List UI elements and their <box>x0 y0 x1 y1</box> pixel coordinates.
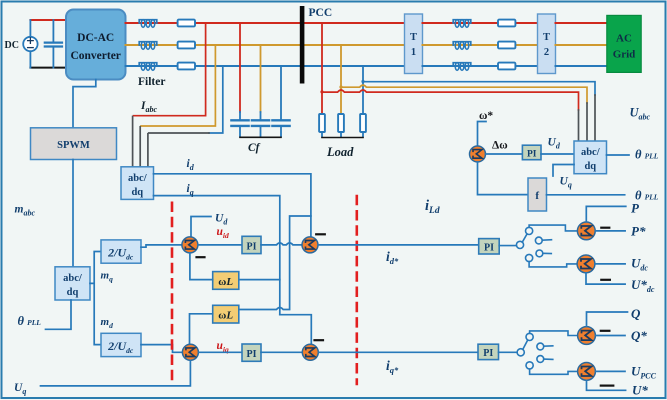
wire Load tap phase A <box>321 23 323 114</box>
svg-text:abc/: abc/ <box>128 173 148 184</box>
svg-text:PCC: PCC <box>309 7 333 19</box>
svg-text:T: T <box>543 32 550 43</box>
dashed boundary line 1 <box>171 202 174 386</box>
switch d lower contact <box>526 254 533 261</box>
svg-text:DC: DC <box>5 40 19 51</box>
transformer T2 <box>538 14 556 74</box>
switch q pivot contact <box>517 349 524 356</box>
switch d upper contact <box>526 227 533 234</box>
inductor Lc filter <box>139 63 157 71</box>
resistor load C <box>360 114 366 132</box>
wire PI outer q to switch pivot <box>499 351 518 353</box>
wire wL1 to sum1d <box>190 253 213 280</box>
svg-text:P*: P* <box>631 224 646 239</box>
wire i_q from abc/dq <box>154 196 280 315</box>
wire Cf tap phase B <box>260 45 262 112</box>
wire phase C T1 to T2 <box>423 65 538 67</box>
svg-text:dq: dq <box>131 187 143 198</box>
wire load bracket <box>322 137 363 139</box>
AC grid block <box>607 15 641 72</box>
wire Iabc tap A red <box>134 23 206 116</box>
summing junction Udc <box>577 255 595 273</box>
svg-text:Load: Load <box>326 145 354 159</box>
switch q upper contact <box>526 333 533 340</box>
wire voltage tap B orange to PLL <box>341 85 587 103</box>
svg-text:abc/: abc/ <box>63 273 83 284</box>
svg-text:T: T <box>410 32 417 43</box>
wire Cf top leads <box>240 112 261 119</box>
svg-text:PI: PI <box>484 243 494 254</box>
svg-text:Filter: Filter <box>138 76 165 88</box>
junction dots on voltage taps <box>320 80 364 94</box>
wire switch q lower to sum Upcc <box>530 369 578 374</box>
wire converter to SPWM <box>73 80 96 128</box>
switch q stub contact 1 <box>537 343 553 350</box>
wire switch d upper to sum P <box>529 225 577 231</box>
wire wL2 to sumq1 <box>190 314 213 345</box>
switch q stub contact 2 <box>537 356 553 363</box>
PI controller outer d <box>479 239 500 254</box>
svg-text:2: 2 <box>544 47 549 58</box>
wire DC positive (red) <box>30 19 66 21</box>
wire 2Udc upper to sum1d <box>141 245 182 247</box>
wire i_q branch to wL1 <box>239 279 280 281</box>
svg-text:AC: AC <box>616 33 632 45</box>
svg-text:DC-AC: DC-AC <box>77 32 114 44</box>
wire i_q into sum q2 <box>280 315 312 345</box>
summing junction sumq1 <box>182 344 198 360</box>
transformer T1 <box>405 14 423 74</box>
wire PI1 to sum2d <box>261 243 302 245</box>
svg-text:Grid: Grid <box>613 49 636 61</box>
summing junction P <box>577 222 595 240</box>
capacitor C1 (dc link) <box>45 43 62 47</box>
capacitor Cf1 <box>231 120 248 126</box>
coupling block wL2 <box>213 305 239 323</box>
resistor load B <box>338 114 344 132</box>
wire sum1d to PI1 <box>198 244 242 246</box>
block abc/dq PLL <box>574 141 607 174</box>
inductor La filter <box>139 20 157 28</box>
wire switch d lower to sum Udc <box>529 262 577 267</box>
coupling block wL1 <box>213 272 239 290</box>
wire f to theta PLL 2 <box>547 194 625 196</box>
wire Q* input <box>596 335 626 337</box>
block abc/dq current transform <box>121 167 154 200</box>
svg-text:Δω: Δω <box>492 140 508 152</box>
switch d arm <box>522 234 527 242</box>
svg-text:P: P <box>631 201 640 216</box>
minus sign at sumq2 <box>315 339 324 341</box>
svg-text:U*: U* <box>632 383 648 398</box>
wire Load tap phase B <box>340 45 342 114</box>
wire id* reference line <box>318 244 479 246</box>
PCC bus bar <box>300 6 305 84</box>
PI controller PLL <box>522 145 541 160</box>
wire Uq pll stub <box>553 165 574 177</box>
PI controller q inner <box>242 344 261 361</box>
block 2/Udc upper <box>101 240 141 263</box>
inductor line La2 <box>453 20 471 28</box>
PI controller d inner <box>242 236 261 253</box>
wire voltage tap C gray drop <box>594 95 596 141</box>
svg-text:SPWM: SPWM <box>57 140 90 151</box>
wire voltage tap A gray drop <box>578 110 580 141</box>
wire voltage tap C blue to PLL <box>363 82 595 95</box>
summing junction sum2d <box>302 237 318 253</box>
svg-text:abc/: abc/ <box>581 147 601 158</box>
summing junction Q <box>578 327 596 345</box>
switch q lower contact <box>526 362 533 369</box>
minus sign at sum1d <box>197 256 205 258</box>
switch d stub contact 1 <box>535 237 551 244</box>
wire PI pll to abc/dq pll <box>541 153 574 155</box>
wire theta PLL output 1 <box>607 154 630 156</box>
wire P input elbow <box>586 206 626 221</box>
wire phase B T2 to grid <box>556 44 607 46</box>
minus sign Q* <box>601 330 610 332</box>
wire Iabc tap B orange <box>141 45 215 126</box>
block f <box>528 178 547 211</box>
resistor load A <box>319 114 325 132</box>
wire Iabc tap C blue <box>209 66 223 133</box>
inductor line Lc2 <box>453 63 471 71</box>
wire PI2 to sumq2 <box>261 351 302 353</box>
summing junction Upcc <box>578 363 596 381</box>
wire PLL sum to f block <box>478 162 529 195</box>
wire Iabc tap A gray drop <box>132 117 134 167</box>
svg-text:PI: PI <box>483 348 493 359</box>
wire Uq input <box>41 360 191 386</box>
wire Udc* elbow <box>586 273 625 284</box>
wire capacitor leads <box>52 20 54 68</box>
svg-text:ω*: ω* <box>479 110 493 122</box>
SPWM block <box>31 128 117 160</box>
svg-text:ωL: ωL <box>218 310 233 322</box>
svg-text:Q: Q <box>631 306 641 321</box>
svg-text:dq: dq <box>67 287 79 298</box>
resistor Ra2 <box>498 20 515 27</box>
wire phase B (orange) converter to T1 <box>126 44 405 46</box>
switch d stub contact 2 <box>536 250 551 257</box>
wire Ud feedforward elbow <box>191 217 211 237</box>
svg-text:Cf: Cf <box>248 142 261 154</box>
PI controller outer q <box>478 344 499 359</box>
dashed boundary line 2 <box>355 195 358 386</box>
minus sign U* <box>601 385 614 387</box>
summing junction sum1d <box>182 237 198 253</box>
wire Load tap phase C <box>362 66 364 114</box>
capacitor Cf3 <box>272 120 289 126</box>
wire Iabc tap B gray drop <box>139 127 141 167</box>
wire Udc input <box>595 263 625 265</box>
wire phase A (red) converter to T1 <box>126 22 405 24</box>
wire dq/abc to 2Udc blocks Y branch <box>90 252 101 345</box>
minus sign Udc* <box>601 279 610 281</box>
wire i_d from abc/dq <box>154 174 311 237</box>
svg-text:PI: PI <box>247 242 257 253</box>
wire SPWM to dq-abc <box>72 160 74 267</box>
wire phase C T2 to grid <box>556 65 607 67</box>
svg-text:PI: PI <box>247 349 257 360</box>
wire Iabc tap C gray <box>148 133 209 167</box>
capacitor Cf2 <box>252 120 269 126</box>
wire Cf bottom leads <box>240 127 281 136</box>
resistor Rb2 <box>498 42 515 49</box>
svg-text:dq: dq <box>584 161 596 172</box>
wire PI outer d to switch pivot <box>499 245 516 247</box>
resistor Rc2 <box>498 63 515 70</box>
summing junction PLL <box>470 146 486 162</box>
dc source V1 <box>23 37 37 51</box>
wire P* input <box>595 230 625 232</box>
wire DC source leads <box>29 20 31 68</box>
wire PLL sum to PI pll <box>486 153 523 155</box>
wire iq* reference line <box>318 351 478 353</box>
svg-text:f: f <box>535 190 539 202</box>
block 2/Udc lower <box>101 333 141 356</box>
wire Cf ground bracket <box>240 136 281 138</box>
switch d pivot contact <box>516 241 523 248</box>
wire Q input elbow <box>587 312 628 326</box>
svg-text:ωL: ωL <box>218 276 233 288</box>
wire Cf tap phase C <box>280 66 282 119</box>
resistor Rb <box>178 42 195 49</box>
resistor Rc <box>178 63 195 70</box>
svg-text:Converter: Converter <box>70 50 120 62</box>
wire Upcc input <box>596 370 626 372</box>
wire switch q upper to sum Q <box>530 331 578 336</box>
inductor Lb filter <box>139 42 157 50</box>
wire theta PLL into dq/abc <box>46 300 72 329</box>
wire omega* into PLL sum <box>478 122 487 147</box>
minus sign at sum2d <box>316 233 325 235</box>
resistor Ra <box>178 20 195 27</box>
minus sign P* <box>601 227 609 229</box>
wire voltage tap B gray drop <box>586 103 588 141</box>
wire phase C (blue) converter to T1 <box>126 65 405 67</box>
converter U1 DC-AC <box>66 10 126 80</box>
wire phase B T1 to T2 <box>423 44 538 46</box>
svg-text:Q*: Q* <box>631 328 647 343</box>
wire voltage tap A red to PLL <box>322 90 579 110</box>
wire DC negative (black) <box>30 67 66 69</box>
wire 2Udc lower to sumq1 <box>141 345 182 353</box>
wire i_d branch to wL2 <box>239 216 311 310</box>
wire Cf tap phase A <box>239 23 241 112</box>
inductor line Lb2 <box>453 42 471 50</box>
block dq/abc modulation transform <box>55 267 90 300</box>
wire phase A T2 to grid <box>556 22 607 24</box>
wire phase A T1 to T2 <box>423 22 538 24</box>
svg-text:1: 1 <box>411 47 416 58</box>
wire sumq1 to PI2 <box>199 351 243 353</box>
wire U* elbow <box>587 380 626 390</box>
summing junction sumq2 <box>302 344 318 360</box>
wire load bottom leads <box>322 132 363 137</box>
switch q arm <box>523 340 528 349</box>
svg-text:PI: PI <box>527 150 537 160</box>
